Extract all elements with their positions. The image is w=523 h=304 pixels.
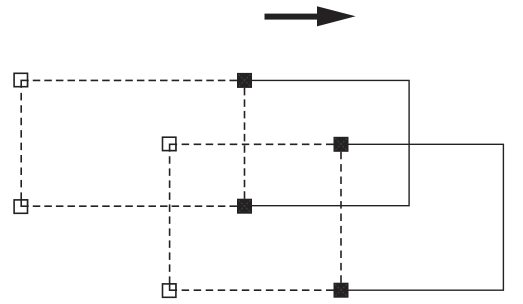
- node: unselected grip B top-left: [163, 137, 176, 150]
- wire: solid stretched rect 1 outline: [245, 80, 410, 205]
- wire: dashed rect B bottom edge: [170, 289, 341, 291]
- wire: dashed rect B left edge: [169, 144, 171, 290]
- wire: dashed rect B right edge: [340, 152, 342, 283]
- node: selected grip A top-right: [237, 73, 252, 88]
- arrow (direction of stretch): [265, 6, 356, 26]
- wire: dashed rect A right edge: [244, 88, 246, 199]
- node: unselected grip B bottom-left: [163, 284, 176, 297]
- wire: dashed rect A top edge: [21, 79, 244, 81]
- node: selected grip B top-right: [334, 137, 349, 152]
- node: selected grip B bottom-right: [334, 283, 349, 298]
- wire: dashed rect A left edge: [20, 80, 22, 206]
- node: unselected grip A bottom-left: [14, 200, 27, 213]
- wire: solid stretched rect 2 outline: [341, 144, 503, 290]
- wire: dashed rect A bottom edge: [21, 205, 244, 207]
- node: selected grip A bottom-right: [237, 199, 252, 214]
- wire: dashed rect B top edge: [170, 143, 341, 145]
- node: unselected grip A top-left: [14, 73, 27, 86]
